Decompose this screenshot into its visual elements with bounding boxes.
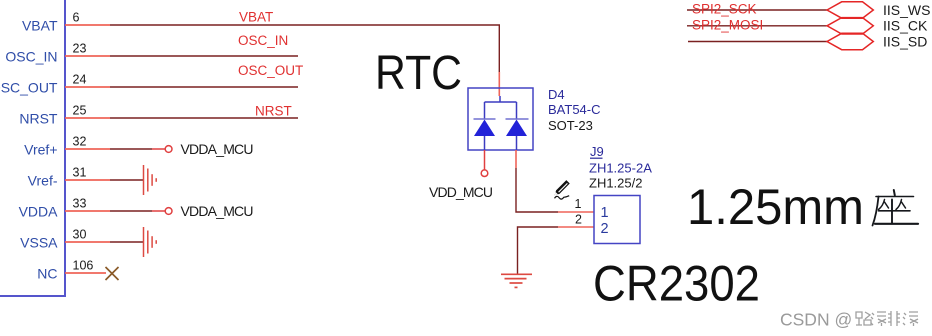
svg-text:IIS_CK: IIS_CK (883, 18, 928, 34)
svg-text:32: 32 (73, 135, 87, 149)
svg-text:D4: D4 (548, 87, 565, 102)
svg-text:106: 106 (73, 259, 94, 273)
svg-text:NRST: NRST (255, 104, 292, 119)
svg-text:31: 31 (73, 166, 87, 180)
svg-text:23: 23 (73, 42, 87, 56)
svg-text:1.25mm: 1.25mm (687, 179, 864, 235)
svg-text:SOT-23: SOT-23 (548, 118, 593, 133)
svg-text:NC: NC (37, 266, 57, 282)
svg-text:SPI2_MOSI: SPI2_MOSI (692, 18, 763, 33)
svg-text:VBAT: VBAT (239, 10, 273, 25)
svg-text:VDD_MCU: VDD_MCU (429, 184, 493, 200)
svg-text:J9: J9 (590, 144, 604, 159)
svg-text:VBAT: VBAT (22, 18, 58, 34)
svg-text:Vref+: Vref+ (24, 142, 57, 158)
svg-text:CSDN @: CSDN @ (780, 310, 852, 330)
svg-text:25: 25 (73, 104, 87, 118)
svg-text:1: 1 (601, 205, 609, 221)
svg-text:33: 33 (73, 197, 87, 211)
svg-text:30: 30 (73, 228, 87, 242)
svg-text:OSC_OUT: OSC_OUT (238, 63, 303, 78)
svg-text:1: 1 (575, 197, 582, 211)
svg-text:OSC_IN: OSC_IN (238, 33, 288, 48)
svg-text:VDDA_MCU: VDDA_MCU (181, 141, 254, 157)
svg-text:OSC_OUT: OSC_OUT (0, 80, 58, 96)
svg-text:IIS_SD: IIS_SD (883, 33, 927, 49)
svg-text:ZH1.25/2: ZH1.25/2 (589, 176, 642, 191)
svg-text:Vref-: Vref- (28, 173, 58, 189)
svg-text:6: 6 (73, 11, 80, 25)
svg-text:ZH1.25-2A: ZH1.25-2A (589, 161, 652, 176)
svg-text:BAT54-C: BAT54-C (548, 102, 601, 117)
svg-text:NRST: NRST (19, 111, 58, 127)
svg-text:VSSA: VSSA (20, 235, 58, 251)
svg-text:RTC: RTC (375, 47, 462, 100)
svg-text:2: 2 (601, 221, 609, 237)
svg-text:SPI2_SCK: SPI2_SCK (692, 2, 757, 17)
svg-text:2: 2 (575, 213, 582, 227)
svg-text:CR2302: CR2302 (593, 256, 760, 312)
svg-text:VDDA_MCU: VDDA_MCU (181, 203, 254, 219)
svg-text:IIS_WS: IIS_WS (883, 2, 930, 18)
svg-text:VDDA: VDDA (19, 204, 59, 220)
svg-text:24: 24 (73, 73, 87, 87)
svg-text:OSC_IN: OSC_IN (5, 49, 57, 65)
